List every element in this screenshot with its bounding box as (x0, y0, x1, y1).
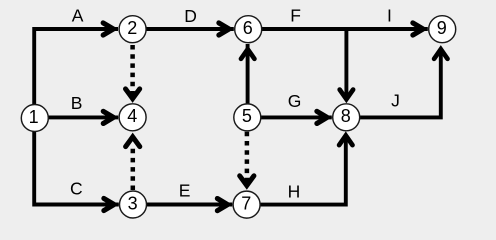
svg-text:8: 8 (341, 106, 351, 126)
node 9 (429, 16, 456, 43)
arrowhead D into node 6 (219, 23, 229, 35)
arrowhead dummy 3-4 into node 4 (126, 137, 140, 147)
arrowhead A into node 2 (103, 23, 113, 35)
svg-text:D: D (184, 6, 197, 26)
svg-text:J: J (391, 90, 400, 110)
wire C: node 1 down and right to node 3 (34, 130, 119, 205)
svg-text:6: 6 (243, 18, 253, 38)
svg-text:1: 1 (29, 107, 39, 127)
dashed dummy arrow node 5 down to node 7 (245, 132, 250, 182)
wire F and I: node 6 right across to node 9 (260, 27, 428, 31)
svg-text:B: B (71, 93, 83, 113)
wire F branch: junction down into node 8 (344, 29, 348, 97)
dashed dummy arrow node 3 up to node 4 (131, 146, 136, 190)
node 1 (21, 105, 48, 132)
node 4 (119, 104, 146, 131)
svg-text:G: G (288, 91, 302, 111)
svg-text:A: A (72, 6, 84, 26)
arrowhead G into node 8 (317, 111, 327, 123)
wire G: node 5 right to node 8 (259, 115, 332, 119)
arrowhead J into node 9 (434, 49, 447, 59)
node 5 (234, 104, 261, 131)
svg-text:3: 3 (128, 193, 138, 213)
wire H: node 7 right then up into node 8 (259, 138, 346, 205)
arrowhead H into node 8 (339, 136, 352, 146)
wire A: node 1 up and right to node 2 (34, 29, 118, 105)
wire node 5 up to node 6 (246, 44, 250, 104)
svg-text:I: I (387, 6, 392, 26)
arrowhead I into node 9 (413, 23, 423, 35)
node 6 (235, 16, 262, 43)
arrowhead 5-6 into node 6 (241, 49, 254, 59)
node 8 (333, 104, 360, 131)
node 7 (233, 191, 260, 218)
dashed dummy arrow node 2 down to node 4 (130, 45, 135, 98)
arrowhead C into node 3 (104, 198, 114, 210)
svg-text:F: F (290, 6, 301, 26)
arrowhead B into node 4 (103, 111, 113, 123)
wire B: node 1 right to node 4 (40, 115, 118, 119)
wire J: node 8 right then up into node 9 (358, 50, 441, 117)
svg-text:9: 9 (437, 18, 447, 38)
wire E: node 3 right to node 7 (146, 203, 232, 207)
svg-text:5: 5 (242, 106, 252, 126)
arrowhead E into node 7 (217, 199, 227, 211)
svg-text:7: 7 (241, 193, 251, 213)
svg-text:C: C (70, 179, 83, 199)
node 2 (119, 16, 146, 43)
svg-text:4: 4 (127, 106, 137, 126)
node 3 (120, 191, 147, 218)
svg-text:E: E (179, 181, 191, 201)
arrowhead dummy 2-4 into node 4 (126, 89, 140, 99)
svg-text:H: H (288, 182, 301, 202)
wire D: node 2 right to node 6 (145, 27, 234, 31)
arrowhead F-branch into node 8 (340, 90, 353, 100)
arrowhead dummy 5-7 into node 7 (240, 176, 254, 186)
svg-text:2: 2 (127, 18, 137, 38)
